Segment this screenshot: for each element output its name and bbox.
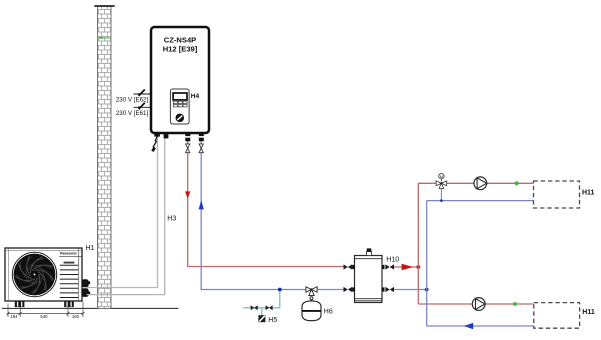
temperature sensor top (green) xyxy=(515,181,519,185)
refrigerant pipe gas (H3 right line) xyxy=(87,138,165,295)
label 230 V [E62] xyxy=(116,97,149,104)
svg-text:230 V [E62]: 230 V [E62] xyxy=(116,97,149,104)
ground line xyxy=(2,307,179,309)
tank outlet valve top-right xyxy=(382,264,394,269)
label H4 xyxy=(191,93,200,100)
heating zone H11 bottom xyxy=(534,303,580,329)
svg-text:M: M xyxy=(440,174,443,179)
return flow arrow bottom (left) xyxy=(464,323,473,330)
label H11 top xyxy=(582,189,595,196)
filter H5 xyxy=(258,315,265,322)
svg-text:H12 [E39]: H12 [E39] xyxy=(163,45,198,54)
controller H4 xyxy=(170,89,189,124)
drain valve left xyxy=(251,305,258,310)
svg-text:H4: H4 xyxy=(191,93,200,100)
supply pipe tank to riser (red) xyxy=(394,266,418,268)
outdoor unit grille xyxy=(60,265,78,297)
label H10 xyxy=(386,256,399,263)
dimension lines under outdoor unit xyxy=(7,302,85,318)
indoor unit H12 xyxy=(151,27,209,133)
dimension value 160 xyxy=(72,314,80,319)
label H12 [E39] xyxy=(163,45,198,54)
outdoor unit feet xyxy=(15,301,74,307)
svg-text:H5: H5 xyxy=(268,317,277,324)
Panasonic logo text xyxy=(60,252,77,256)
temperature sensor bottom (green) xyxy=(513,302,517,306)
svg-text:H10: H10 xyxy=(386,256,399,263)
heating zone H11 top xyxy=(534,181,580,208)
supply connection fitting xyxy=(185,133,190,141)
return junction node xyxy=(425,288,429,292)
svg-text:H11: H11 xyxy=(582,189,595,196)
svg-text:H11: H11 xyxy=(582,309,595,316)
drain cable gland xyxy=(151,133,160,152)
flow arrow up (return) xyxy=(199,200,204,209)
refrigerant pipe liquid (H3 left line) xyxy=(87,136,158,288)
drain branch pipe (teal) xyxy=(243,290,279,316)
supply riser (red) xyxy=(418,183,534,304)
supply junction node xyxy=(416,265,420,269)
water supply pipe (red) indoor unit to tank xyxy=(188,141,344,267)
svg-text:CZ-NS4P: CZ-NS4P xyxy=(164,36,197,45)
water return pipe (blue) indoor unit to tank xyxy=(201,141,343,290)
mixing valve node xyxy=(440,199,443,202)
dimension value 540 xyxy=(40,314,48,319)
tank inlet valve top-left xyxy=(344,264,355,269)
power switch E61 xyxy=(134,103,152,109)
label 230 V [E61] xyxy=(116,110,149,117)
svg-text:160: 160 xyxy=(72,314,80,319)
buffer tank xyxy=(355,256,383,303)
tank air vent cap xyxy=(366,248,371,255)
return pipe tank to riser (blue) xyxy=(394,289,427,291)
model sticker xyxy=(64,262,75,264)
label H1 xyxy=(86,245,95,252)
svg-text:230 V [E61]: 230 V [E61] xyxy=(116,110,149,117)
tank outlet valve bottom-right xyxy=(382,287,394,292)
dimension value 184 xyxy=(10,314,18,319)
label H5 xyxy=(268,317,277,324)
motorized mixing valve M xyxy=(436,174,447,189)
return riser (blue) xyxy=(427,201,534,326)
outdoor unit service valves xyxy=(82,279,91,297)
svg-text:184: 184 xyxy=(10,314,18,319)
return shutoff valve xyxy=(199,144,203,153)
expansion vessel valve xyxy=(306,287,317,302)
flow arrow down (supply) xyxy=(185,191,190,198)
outdoor unit fan xyxy=(12,252,56,296)
mixing valve drop pipe xyxy=(440,187,442,201)
label H6 xyxy=(324,309,333,316)
circulation pump top xyxy=(474,177,487,190)
svg-text:Panasonic: Panasonic xyxy=(60,252,77,256)
branch junction node xyxy=(278,288,282,292)
svg-text:H1: H1 xyxy=(86,245,95,252)
green mark on wall xyxy=(98,37,111,39)
outdoor unit H1 xyxy=(5,248,82,301)
label CZ-NS4P xyxy=(164,36,197,45)
expansion vessel H6 xyxy=(302,301,321,321)
tank inlet valve bottom-left xyxy=(344,287,355,292)
drain valve right xyxy=(266,305,273,310)
label H3 xyxy=(167,216,176,223)
supply shutoff valve xyxy=(186,144,190,153)
flow arrow H10 (right) xyxy=(402,264,414,271)
return connection fitting xyxy=(199,133,204,141)
refrigerant connection fitting xyxy=(164,133,169,138)
power switch E62 xyxy=(134,90,152,96)
svg-text:H3: H3 xyxy=(167,216,176,223)
circulation pump bottom xyxy=(472,298,485,311)
label H11 bottom xyxy=(582,309,595,316)
svg-text:H6: H6 xyxy=(324,309,333,316)
svg-text:540: 540 xyxy=(40,314,48,319)
brick wall column xyxy=(94,6,114,309)
